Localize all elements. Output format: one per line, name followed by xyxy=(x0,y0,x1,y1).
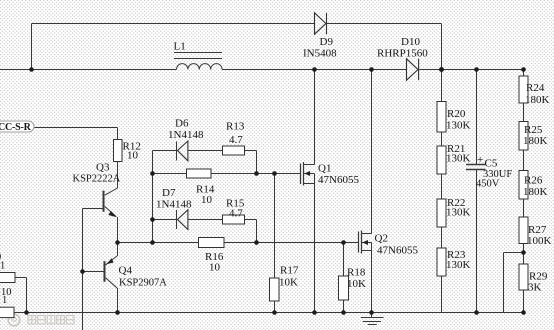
svg-text:180K: 180K xyxy=(525,94,550,106)
svg-text:10: 10 xyxy=(209,262,221,274)
svg-text:R24: R24 xyxy=(526,82,545,94)
svg-text:+: + xyxy=(477,154,483,166)
svg-text:4.7: 4.7 xyxy=(229,208,243,220)
svg-text:KSP2222A: KSP2222A xyxy=(73,174,121,185)
svg-text:180K: 180K xyxy=(523,186,548,198)
svg-text:L1: L1 xyxy=(174,41,186,53)
svg-text:3K: 3K xyxy=(528,282,542,294)
svg-text:R18: R18 xyxy=(347,267,366,279)
svg-text:D6: D6 xyxy=(175,118,189,130)
svg-text:R20: R20 xyxy=(447,108,466,120)
svg-text:100K: 100K xyxy=(527,235,552,247)
svg-text:10K: 10K xyxy=(279,277,298,289)
svg-text:180K: 180K xyxy=(523,135,548,147)
svg-text:1: 1 xyxy=(0,261,5,272)
svg-text:Q2: Q2 xyxy=(375,233,388,245)
svg-text:130K: 130K xyxy=(446,120,471,132)
svg-text:130K: 130K xyxy=(446,259,471,271)
svg-text:130K: 130K xyxy=(446,153,471,165)
svg-text:130K: 130K xyxy=(446,207,471,219)
svg-text:D9: D9 xyxy=(320,36,334,48)
svg-text:10K: 10K xyxy=(347,278,366,290)
svg-text:10: 10 xyxy=(201,194,213,206)
svg-text:RHRP1560: RHRP1560 xyxy=(377,48,428,60)
svg-text:Q1: Q1 xyxy=(318,163,331,175)
svg-text:D7: D7 xyxy=(162,187,176,199)
svg-text:47N6055: 47N6055 xyxy=(377,245,418,257)
svg-text:CC-S-R: CC-S-R xyxy=(0,122,32,133)
svg-text:4.7: 4.7 xyxy=(229,134,243,146)
svg-text:1N4148: 1N4148 xyxy=(168,129,204,141)
svg-text:1N4148: 1N4148 xyxy=(156,199,192,211)
svg-text:450V: 450V xyxy=(476,179,500,190)
svg-text:KSP2907A: KSP2907A xyxy=(119,278,167,289)
svg-text:C5: C5 xyxy=(485,158,498,170)
svg-text:Q3: Q3 xyxy=(96,162,110,174)
svg-text:D10: D10 xyxy=(401,36,420,48)
svg-text:47N6055: 47N6055 xyxy=(318,174,359,186)
svg-text:IN5408: IN5408 xyxy=(303,48,337,60)
svg-text:R17: R17 xyxy=(280,265,299,277)
svg-text:Q4: Q4 xyxy=(119,265,133,277)
svg-text:R26: R26 xyxy=(524,175,543,187)
svg-text:1: 1 xyxy=(2,295,7,306)
svg-text:R13: R13 xyxy=(226,121,245,133)
svg-text:10: 10 xyxy=(127,150,139,162)
